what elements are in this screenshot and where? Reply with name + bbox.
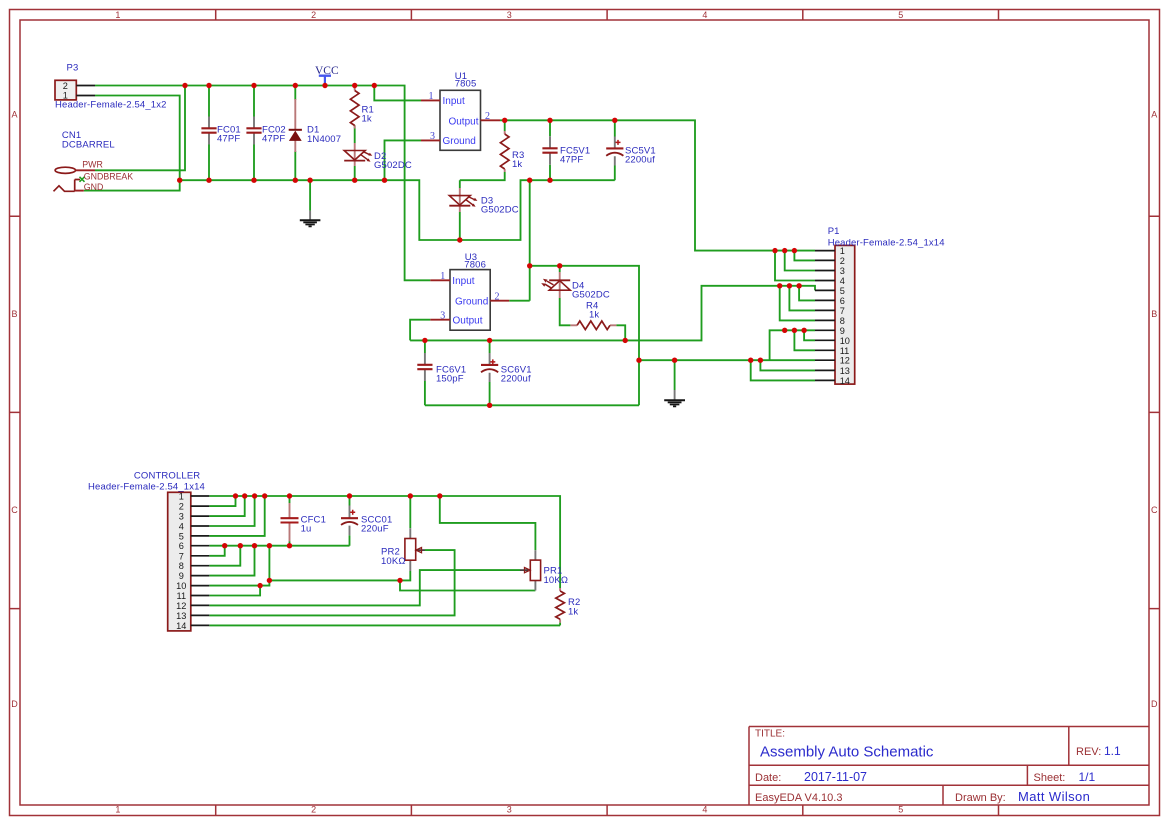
svg-text:7: 7 — [179, 551, 184, 561]
label FC5V1 — [560, 145, 590, 165]
svg-text:C: C — [1151, 505, 1158, 515]
wire PWR to top rail — [95, 86, 185, 171]
svg-text:4: 4 — [179, 522, 184, 532]
svg-text:1: 1 — [440, 271, 445, 282]
svg-text:1N4007: 1N4007 — [307, 134, 341, 145]
label SC6V1 — [501, 365, 532, 385]
svg-text:7805: 7805 — [455, 79, 477, 90]
svg-text:3: 3 — [507, 10, 512, 20]
svg-text:3: 3 — [430, 131, 435, 142]
LED D3 — [449, 188, 477, 212]
junction dots U3 ground net — [527, 263, 562, 268]
junction dots top rail — [182, 83, 377, 88]
junction dots 6V rail — [422, 338, 628, 343]
wire R1 D2 branch — [354, 86, 356, 181]
label R4 — [586, 300, 599, 320]
svg-text:2: 2 — [179, 502, 184, 512]
label D2 — [374, 151, 412, 171]
svg-text:220uF: 220uF — [361, 524, 389, 535]
junction dots controller lower — [257, 578, 402, 589]
frame row letters left — [11, 110, 18, 710]
wire U3 output — [410, 320, 430, 341]
wire controller pin12 to PR1 wiper — [209, 570, 520, 605]
svg-text:A: A — [1151, 110, 1157, 120]
wire controller pin9 branch — [209, 546, 254, 576]
wire controller pin7 branch — [209, 546, 224, 556]
svg-text:Matt Wilson: Matt Wilson — [1018, 789, 1090, 804]
svg-text:4: 4 — [840, 276, 845, 286]
wire 5V rail to P1 pin1 — [500, 120, 815, 250]
svg-text:2: 2 — [311, 805, 316, 815]
wire controller pin13 to PR2 wiper — [209, 550, 454, 615]
resistor R2 — [556, 588, 565, 623]
label FC6V1 — [436, 365, 466, 385]
wire U1 input branch — [374, 86, 421, 101]
capacitor FC5V1 — [542, 136, 557, 164]
svg-text:1u: 1u — [301, 524, 312, 535]
wire controller pin5 branch — [209, 496, 264, 536]
svg-text:10KΩ: 10KΩ — [381, 556, 406, 567]
wire FC6V1 branch — [424, 340, 426, 405]
svg-text:5: 5 — [840, 286, 845, 296]
wire controller pin6 row — [209, 545, 349, 547]
wire D3 branch — [459, 180, 461, 240]
wire controller pin2 branch — [209, 496, 235, 506]
wire controller pin3 branch — [209, 496, 244, 516]
wire P1 pin6 branch — [799, 286, 815, 301]
junction dots bottom rail — [177, 178, 553, 183]
LED D2 — [344, 143, 372, 166]
capacitor SC6V1 polarized — [481, 353, 498, 382]
svg-text:G502DC: G502DC — [374, 160, 412, 171]
wire D1 branch — [294, 86, 296, 181]
header P3 — [55, 80, 95, 100]
label U1 — [455, 71, 477, 90]
capacitor FC02 — [246, 117, 261, 145]
wire FC02 branch — [253, 86, 255, 181]
svg-text:13: 13 — [176, 611, 186, 621]
svg-text:10: 10 — [840, 336, 850, 346]
svg-text:2: 2 — [840, 256, 845, 266]
svg-text:4: 4 — [702, 805, 707, 815]
wire P1 pin7 branch — [789, 286, 815, 311]
svg-text:5: 5 — [898, 10, 903, 20]
wire P1 pin2 branch — [794, 251, 815, 261]
svg-text:3: 3 — [507, 805, 512, 815]
svg-text:14: 14 — [840, 376, 850, 386]
svg-text:Header-Female-2.54_1x14: Header-Female-2.54_1x14 — [88, 482, 205, 493]
svg-text:REV:: REV: — [1076, 746, 1101, 758]
svg-text:Header-Female-2.54_1x14: Header-Female-2.54_1x14 — [828, 238, 945, 249]
label D1 — [307, 125, 341, 146]
svg-text:B: B — [1151, 309, 1157, 319]
wire D4 R4 chain — [560, 266, 626, 341]
label FC01 — [217, 124, 241, 144]
svg-text:GND: GND — [84, 182, 104, 192]
capacitor SC5V1 polarized — [606, 137, 623, 166]
wire CFC1 branch — [289, 496, 291, 546]
diode D1 — [289, 99, 302, 152]
ground symbol 2 — [664, 390, 685, 406]
svg-text:7: 7 — [840, 306, 845, 316]
wire controller pin1 rail to R2 — [209, 496, 560, 625]
svg-text:Input: Input — [452, 276, 474, 287]
label PR2 — [381, 547, 406, 568]
svg-text:47PF: 47PF — [262, 133, 285, 144]
junction dot D3 — [457, 237, 462, 242]
svg-text:47PF: 47PF — [560, 155, 583, 166]
LED D4 — [541, 272, 570, 298]
svg-text:TITLE:: TITLE: — [755, 729, 785, 740]
capacitor FC6V1 — [417, 353, 432, 381]
svg-text:B: B — [11, 309, 17, 319]
junction dots controller row1 — [233, 493, 443, 498]
svg-text:Input: Input — [443, 96, 465, 107]
svg-text:Assembly Auto Schematic: Assembly Auto Schematic — [760, 744, 934, 761]
label FC02 — [262, 124, 286, 144]
svg-text:47PF: 47PF — [217, 133, 240, 144]
wire controller pin10 branch — [209, 546, 269, 586]
ground symbol 1 — [300, 211, 321, 227]
power flag VCC — [315, 65, 339, 84]
wire ground symbol 1 stem — [309, 180, 311, 210]
svg-text:CONTROLLER: CONTROLLER — [134, 470, 200, 481]
label SC5V1 — [625, 145, 656, 165]
wire VCC top rail to U3 input — [95, 86, 430, 281]
svg-text:D: D — [11, 699, 18, 709]
svg-text:1: 1 — [429, 91, 434, 102]
svg-text:1.1: 1.1 — [1104, 744, 1121, 758]
wire FC5V1 branch — [549, 120, 551, 180]
svg-text:3: 3 — [440, 311, 445, 322]
svg-text:2200uf: 2200uf — [501, 374, 531, 385]
wire 6V rail to P1 pins5-8 — [410, 286, 815, 341]
regulator U1 7805 — [421, 90, 500, 150]
capacitor CFC1 — [281, 503, 299, 542]
svg-text:3: 3 — [840, 266, 845, 276]
frame row letters right — [1151, 110, 1158, 710]
connector CN1 DCBARREL — [54, 167, 96, 191]
label R1 — [362, 105, 374, 125]
svg-text:1: 1 — [115, 10, 120, 20]
resistor R1 — [350, 88, 359, 129]
junction dots gnd row — [487, 358, 763, 408]
svg-text:2: 2 — [311, 10, 316, 20]
wire ground symbol 2 stem — [674, 360, 676, 390]
svg-text:C: C — [11, 505, 18, 515]
wire bottom GND rail with jog — [180, 180, 615, 240]
label CN1 — [62, 130, 115, 151]
svg-text:P3: P3 — [67, 63, 79, 74]
wire SC5V1 branch — [614, 120, 616, 180]
junction dots controller row6 — [222, 543, 292, 548]
svg-text:Output: Output — [453, 316, 483, 327]
wire P1 pins 9-11 branch — [770, 330, 815, 360]
wire pin10 net to PR2 bottom — [269, 571, 410, 580]
svg-text:12: 12 — [176, 601, 186, 611]
regulator U3 7806 — [430, 270, 509, 331]
svg-text:11: 11 — [840, 346, 850, 356]
label R3 — [512, 150, 524, 170]
svg-text:1k: 1k — [362, 114, 372, 125]
label PR1 — [544, 565, 569, 586]
label CFC1 — [301, 515, 326, 535]
label D3 — [481, 196, 519, 216]
svg-text:3: 3 — [179, 512, 184, 522]
svg-text:150pF: 150pF — [436, 374, 464, 385]
svg-text:G502DC: G502DC — [481, 205, 519, 216]
svg-text:D: D — [1151, 699, 1158, 709]
svg-text:Ground: Ground — [455, 297, 488, 308]
svg-text:G502DC: G502DC — [572, 289, 610, 300]
wire controller pin4 branch — [209, 496, 254, 526]
wire P1 pin14 branch — [751, 360, 815, 380]
svg-text:2017-11-07: 2017-11-07 — [804, 770, 867, 784]
svg-text:10KΩ: 10KΩ — [544, 575, 569, 586]
svg-text:2: 2 — [495, 292, 500, 303]
wire P1 pin3 branch — [785, 251, 815, 271]
svg-text:2200uf: 2200uf — [625, 155, 655, 166]
svg-text:Header-Female-2.54_1x2: Header-Female-2.54_1x2 — [55, 100, 167, 111]
wire PR2 top branch — [409, 496, 411, 528]
wire to PR1 bottom — [400, 580, 535, 590]
svg-text:5: 5 — [898, 805, 903, 815]
svg-text:P1: P1 — [828, 226, 840, 237]
svg-text:A: A — [11, 110, 17, 120]
svg-text:10: 10 — [176, 581, 186, 591]
svg-text:1: 1 — [179, 492, 184, 502]
wire SCC01 branch — [349, 496, 351, 546]
svg-text:8: 8 — [179, 561, 184, 571]
potentiometer PR2 — [405, 528, 425, 571]
wire R3 branch — [460, 120, 505, 180]
wire P1 pin8 branch — [780, 286, 815, 321]
junction dots P1 — [772, 248, 807, 333]
label R2 — [568, 597, 580, 617]
frame column numbers bottom — [115, 805, 903, 815]
svg-text:Drawn By:: Drawn By: — [955, 792, 1006, 804]
svg-text:14: 14 — [176, 621, 186, 631]
wire P1 pin4 branch — [775, 251, 815, 281]
frame column numbers top — [115, 10, 903, 20]
svg-text:6: 6 — [840, 296, 845, 306]
header CONTROLLER — [168, 492, 210, 631]
label D4 — [572, 281, 610, 301]
svg-text:6: 6 — [179, 541, 184, 551]
svg-text:Ground: Ground — [443, 136, 476, 147]
capacitor FC01 — [201, 117, 216, 145]
svg-text:7806: 7806 — [464, 259, 486, 270]
header P1 — [815, 245, 855, 386]
svg-text:12: 12 — [840, 356, 850, 366]
label CONTROLLER — [88, 470, 205, 492]
resistor R3 — [500, 131, 509, 172]
svg-text:1/1: 1/1 — [1079, 770, 1096, 784]
svg-text:1k: 1k — [568, 607, 578, 618]
wire GND row to P1 pin12 — [639, 359, 815, 361]
label P3 — [55, 63, 167, 111]
potentiometer PR1 — [520, 550, 541, 590]
capacitor SCC01 polarized — [341, 506, 358, 536]
svg-text:PWR: PWR — [82, 159, 103, 169]
svg-text:GNDBREAK: GNDBREAK — [84, 171, 134, 181]
wire U3 ground net — [509, 180, 639, 405]
svg-text:Output: Output — [448, 116, 478, 127]
svg-text:DCBARREL: DCBARREL — [62, 140, 115, 151]
svg-text:2: 2 — [485, 111, 490, 122]
resistor R4 — [570, 321, 616, 330]
wire U1 ground to rail — [385, 140, 422, 180]
svg-text:1k: 1k — [512, 159, 522, 170]
svg-text:8: 8 — [840, 316, 845, 326]
svg-text:9: 9 — [840, 326, 845, 336]
wire PR1 top branch — [440, 496, 536, 550]
wire FC01 branch — [208, 86, 210, 181]
svg-text:5: 5 — [179, 531, 184, 541]
label U3 — [464, 252, 486, 270]
svg-text:2: 2 — [63, 81, 68, 91]
label P1 — [828, 226, 945, 249]
wire controller pin11 branch — [209, 586, 260, 596]
svg-text:1k: 1k — [589, 310, 599, 321]
svg-text:1: 1 — [115, 805, 120, 815]
title block — [749, 727, 1149, 806]
wire P3 pin1 to GND net — [84, 96, 180, 191]
junction dots 5V rail — [502, 118, 618, 123]
svg-text:13: 13 — [840, 366, 850, 376]
svg-text:EasyEDA V4.10.3: EasyEDA V4.10.3 — [755, 792, 842, 804]
wire controller pin14 row — [209, 624, 560, 626]
wire lower cap rail — [425, 404, 639, 406]
svg-text:4: 4 — [702, 10, 707, 20]
svg-text:9: 9 — [179, 571, 184, 581]
svg-text:Sheet:: Sheet: — [1034, 772, 1066, 784]
label SCC01 — [361, 515, 392, 535]
svg-text:Date:: Date: — [755, 772, 781, 784]
svg-text:11: 11 — [177, 591, 187, 601]
wire controller pin8 branch — [209, 546, 240, 566]
wire SC6V1 branch — [489, 340, 491, 405]
wire P1 pin13 branch — [760, 360, 815, 370]
